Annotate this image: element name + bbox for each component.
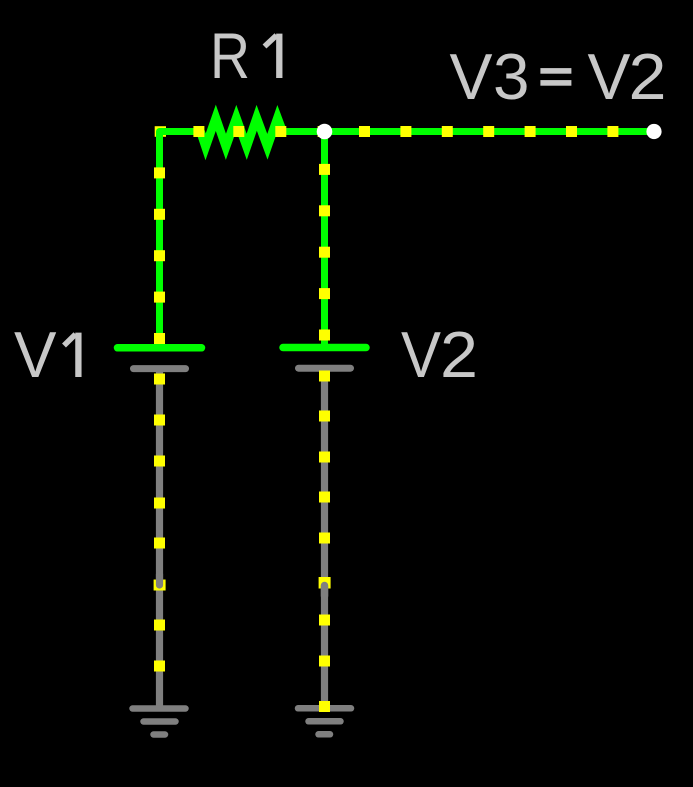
current dot at corner (under wires) xyxy=(155,126,166,137)
current dot n-shape on middle gray wire xyxy=(319,577,331,596)
label V3 = V2 xyxy=(450,40,667,113)
current dot U-shape on left gray wire xyxy=(154,574,166,591)
wire: junction to right endpoint xyxy=(325,128,655,135)
wire: middle vertical (V2 top lead) xyxy=(321,132,328,348)
current dots: left vertical wire xyxy=(154,167,165,344)
node: right endpoint white dot xyxy=(646,124,661,139)
svg-text:V: V xyxy=(588,40,632,113)
battery V1 negative plate xyxy=(134,365,186,372)
current dots: middle gray wire xyxy=(319,371,330,667)
svg-text:V: V xyxy=(450,40,494,113)
svg-text:2: 2 xyxy=(629,40,667,113)
resistor R1 zigzag xyxy=(201,118,283,147)
battery V1 positive plate xyxy=(118,344,202,352)
wire: resistor right lead to junction xyxy=(282,128,325,135)
ground G2 bar1 xyxy=(298,705,351,712)
svg-text:2: 2 xyxy=(440,318,478,391)
ground G2 bar2 xyxy=(309,718,341,725)
wire: left corner (V1 top lead + top horizontal to resistor) xyxy=(160,132,202,348)
svg-text:R: R xyxy=(210,19,250,92)
wire: left gray (V1 bottom lead to ground) xyxy=(156,369,163,709)
battery V2 negative plate xyxy=(299,365,351,372)
wire: middle gray (V2 bottom lead to ground) xyxy=(321,368,328,708)
ground G2 bar3 xyxy=(319,731,331,738)
label V2 xyxy=(401,318,478,391)
current dots: top wire xyxy=(193,126,618,137)
label R1 xyxy=(210,19,279,92)
ground G1 bar1 xyxy=(133,705,186,712)
battery V2 positive plate xyxy=(283,344,366,352)
svg-text:V: V xyxy=(14,318,57,391)
svg-text:V: V xyxy=(401,318,442,391)
current dot on ground G2 bar xyxy=(319,701,330,712)
ground G1 bar3 xyxy=(154,731,166,738)
ground G1 bar2 xyxy=(144,718,176,725)
current dots: middle vertical wire xyxy=(319,164,330,341)
label V1 xyxy=(14,318,78,391)
current dots: left gray wire xyxy=(154,374,165,672)
svg-text:3: 3 xyxy=(493,40,530,113)
node: junction white dot xyxy=(317,124,333,140)
